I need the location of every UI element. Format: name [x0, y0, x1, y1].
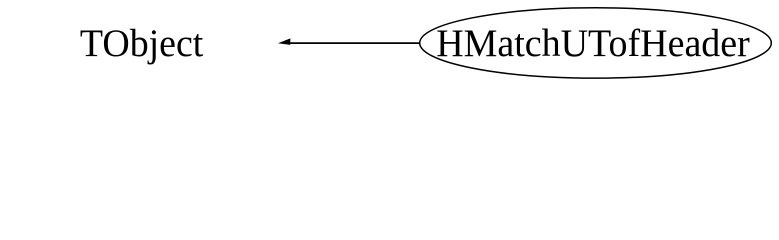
node HMatchUTofHeader ellipse [420, 8, 772, 78]
svg-text:TObject: TObject [80, 22, 204, 65]
svg-text:HMatchUTofHeader: HMatchUTofHeader [436, 22, 750, 65]
arrowhead pointing to TObject [278, 38, 290, 45]
wire inheritance arrow shaft [289, 42, 419, 44]
